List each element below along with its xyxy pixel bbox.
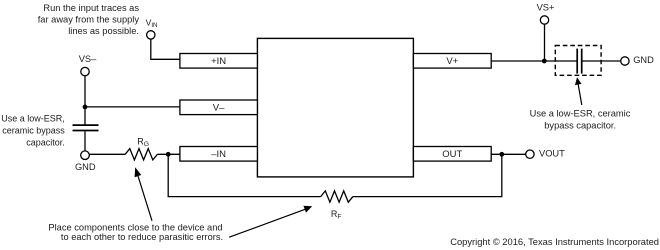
svg-text:lines as possible.: lines as possible. [68,26,139,36]
wire RG to -IN pin [157,153,180,155]
svg-text:bypass capacitor.: bypass capacitor. [544,121,616,131]
arrow to right capacitor [575,77,582,105]
note: run input traces [38,3,140,36]
dashed box around bypass capacitor [555,46,601,76]
op-amp U1 body [257,38,413,177]
svg-text:+IN: +IN [211,56,226,67]
wire VS+ down [544,25,546,61]
capacitor C2 (right bypass) [577,49,582,74]
svg-text:to each other to reduce parasi: to each other to reduce parasitic errors… [61,232,223,242]
svg-text:VS+: VS+ [537,3,555,13]
wire VIN to +IN [151,39,180,59]
svg-text:GND: GND [633,55,654,65]
svg-text:Copyright © 2016, Texas Instru: Copyright © 2016, Texas Instruments Inco… [450,237,659,247]
svg-text:ceramic bypass: ceramic bypass [2,126,65,136]
pin box +IN [180,54,258,69]
wire RF to output node [353,154,502,196]
svg-text:capacitor.: capacitor. [26,138,65,148]
svg-text:–IN: –IN [211,149,226,160]
wire capacitor to GND right [582,60,621,62]
svg-text:Use a low-ESR, ceramic: Use a low-ESR, ceramic [530,108,631,118]
arrow to RF [229,206,312,237]
wire V+ pin to bypass capacitor [491,60,577,62]
terminal GND right [621,57,629,65]
capacitor C1 (left bypass) [73,125,99,130]
wire capacitor to GND [84,131,86,150]
wire OUT pin to VOUT [491,153,525,155]
junction -IN / feedback [166,152,171,157]
pin box V- [180,100,258,115]
terminal GND left [81,151,90,160]
terminal VS- [81,67,89,75]
wire VS- down to capacitor [84,76,86,124]
note: left bypass capacitor [1,114,65,148]
terminal VIN [147,31,155,39]
wire junction to V- pin [85,106,180,108]
svg-text:Place components close to the: Place components close to the device and [48,222,222,232]
svg-text:VS–: VS– [79,54,97,64]
svg-text:far away from the supply: far away from the supply [38,15,140,25]
svg-text:VOUT: VOUT [539,148,565,158]
terminal VS+ [540,16,548,24]
wire feedback down and right [168,154,321,196]
svg-text:Run the input traces as: Run the input traces as [43,3,139,13]
svg-text:V–: V– [213,102,225,113]
junction output node [499,152,504,157]
pin box V+ [413,54,491,69]
svg-text:OUT: OUT [442,149,462,160]
svg-text:Use a low-ESR,: Use a low-ESR, [1,114,65,124]
note: right bypass capacitor [530,108,631,130]
pin box OUT [413,147,491,162]
svg-text:V+: V+ [446,56,458,67]
svg-text:GND: GND [75,162,96,172]
note: place components close [48,222,223,242]
pin box -IN [180,147,258,162]
junction VS+ / V+ [542,59,547,64]
resistor RG [125,149,157,160]
resistor RF [321,191,353,202]
arrow to RG [135,167,152,221]
wire GND to RG [90,153,126,155]
junction VS- / V- [83,105,88,110]
terminal VOUT [526,150,534,158]
